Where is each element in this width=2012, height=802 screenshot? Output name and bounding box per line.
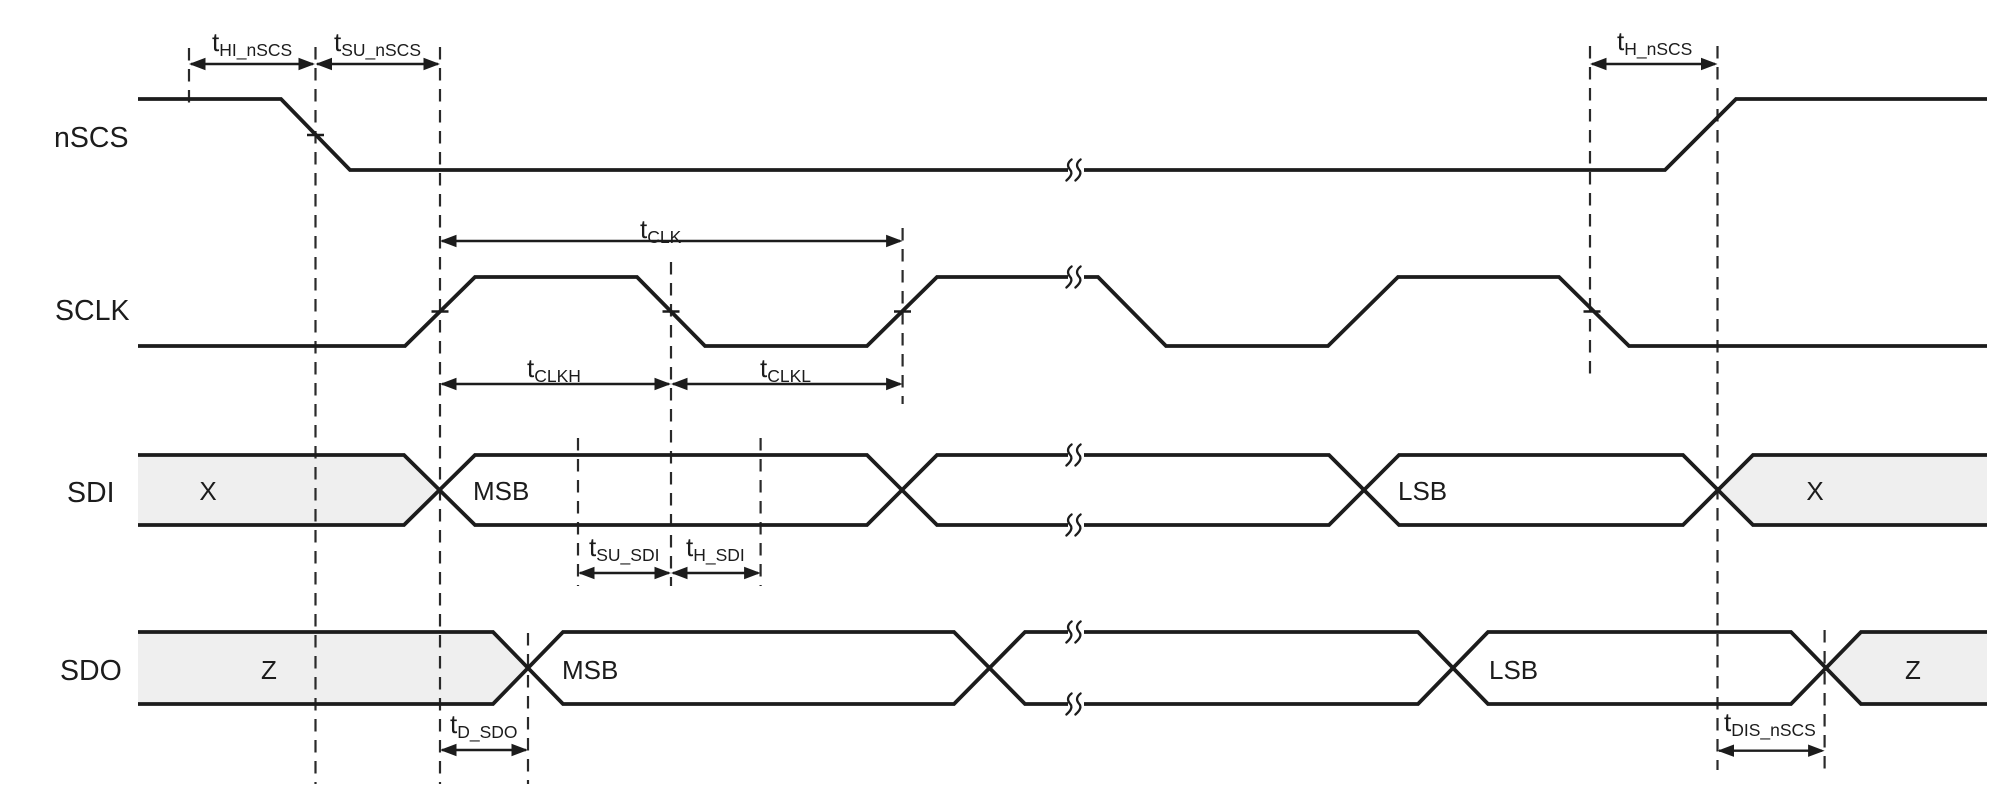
arrow tH_nSCS [1590,58,1718,70]
SDI bus rail B [138,455,1987,525]
svg-text:LSB: LSB [1398,476,1447,506]
guide line at x=671 (SCLK first fall) [670,262,672,586]
svg-text:MSB: MSB [562,655,618,685]
SDO Z-left segment fill [138,632,528,704]
svg-text:tCLK: tCLK [640,214,682,247]
svg-text:Z: Z [261,655,277,685]
arrow tCLKH [440,378,671,390]
svg-text:tCLKH: tCLKH [527,353,581,386]
guide line at x=440 (SCLK first rise) [439,47,441,784]
arrow tSU_SDI [578,567,671,579]
nSCS waveform [138,99,1987,170]
tick on nSCS falling edge [307,134,324,137]
arrow tHI_nSCS [189,58,315,70]
break on SDI top rail [1066,445,1080,466]
svg-text:tH_SDI: tH_SDI [686,532,745,566]
svg-text:SDO: SDO [60,655,122,687]
arrow tCLK [440,235,903,247]
break on SDO top rail [1066,622,1080,643]
arrow tDIS_nSCS [1718,745,1825,757]
svg-text:SCLK: SCLK [55,295,129,327]
svg-text:tSU_nSCS: tSU_nSCS [334,27,421,61]
tick on SCLK rise 1 [432,310,449,313]
guide line at x=1717.5 (nSCS rise) [1716,46,1718,770]
svg-text:X: X [1806,476,1823,506]
arrow tD_SDO [440,744,528,756]
SDI bus rail A [138,455,1987,525]
tick on SCLK rise 2 [894,310,911,313]
break on nSCS low line [1066,160,1080,181]
svg-text:tHI_nSCS: tHI_nSCS [212,27,292,61]
guide line at x=315.5 (nSCS fall mid) [314,47,316,784]
break on SDO bottom rail [1066,694,1080,715]
break on SDI bottom rail [1066,515,1080,536]
SDI X-left segment fill [138,455,440,525]
guide line at x=902.6 (SCLK second rise) [901,228,903,404]
svg-text:tSU_SDI: tSU_SDI [589,532,659,566]
arrow tSU_nSCS [316,58,441,70]
guide line at x=578 (tSU_SDI left) [577,438,579,586]
svg-text:MSB: MSB [473,476,529,506]
tick on SCLK fall 1 [663,310,680,313]
guide line at x=189 (tHI_nSCS left) [188,48,190,110]
guide line at x=760.6 (tH_SDI right) [759,438,761,586]
guide line at x=1590 (SCLK last fall) [1589,46,1591,381]
svg-text:tH_nSCS: tH_nSCS [1617,26,1692,60]
break on SCLK high line [1066,267,1080,288]
svg-text:nSCS: nSCS [54,122,128,154]
svg-text:SDI: SDI [67,477,115,509]
tick on SCLK fall 3 [1584,310,1601,313]
guide line at x=1824.6 (SDO disable) [1823,630,1825,770]
SDO bus rail A [138,632,1987,704]
svg-text:tCLKL: tCLKL [760,353,811,386]
SDO Z-right segment fill [1826,632,1987,704]
svg-text:tDIS_nSCS: tDIS_nSCS [1724,707,1816,741]
svg-text:LSB: LSB [1489,655,1538,685]
guide line at x=528 (SDO MSB valid) [527,633,529,784]
svg-text:Z: Z [1905,655,1921,685]
arrow tH_SDI [671,567,761,579]
svg-text:tD_SDO: tD_SDO [450,709,518,743]
SDO bus rail B [138,632,1987,704]
svg-text:X: X [199,476,216,506]
arrow tCLKL [671,378,903,390]
SDI X-right segment fill [1718,455,1987,525]
SCLK waveform [138,277,1987,346]
